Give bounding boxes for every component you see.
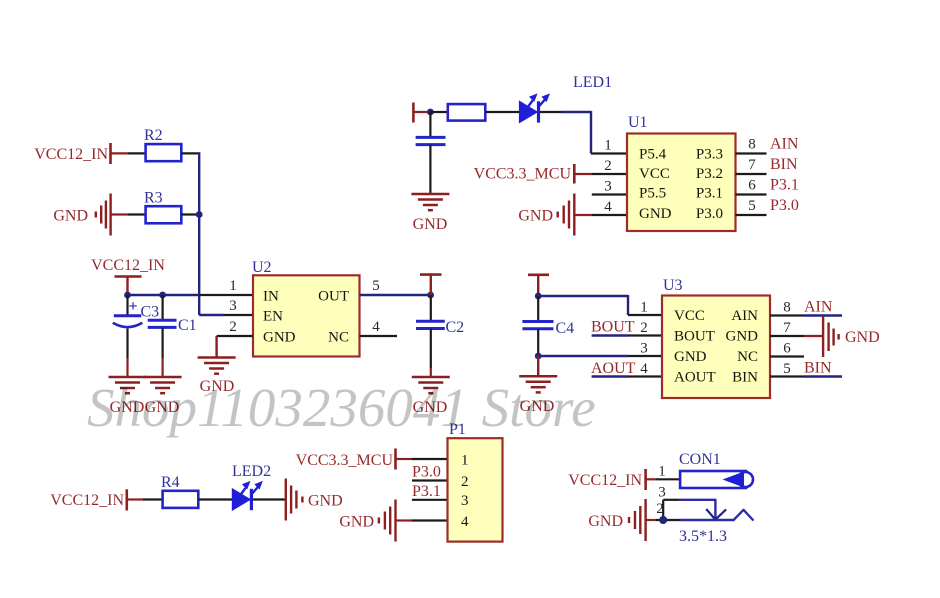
chip U2 (252, 259, 360, 357)
junction C3 top (124, 292, 131, 299)
wire C4 bottom to U3 pin3 (538, 355, 662, 357)
svg-text:P3.3: P3.3 (696, 147, 723, 163)
wire port to junction (414, 111, 430, 113)
capacitor C3 (113, 295, 159, 376)
svg-text:1: 1 (640, 300, 648, 316)
svg-text:VCC12_IN: VCC12_IN (50, 492, 124, 509)
svg-text:8: 8 (748, 137, 756, 153)
U2 pin 2 wire to ground (217, 336, 253, 357)
U2 pin number 1 (229, 278, 237, 294)
svg-text:GND: GND (263, 330, 296, 346)
U3 pin names left (674, 308, 716, 386)
port bar VCC3.3_MCU (P1) (394, 449, 397, 470)
svg-text:C2: C2 (446, 319, 465, 336)
wire AOUT to U3 pin4 (592, 375, 662, 377)
svg-text:VCC: VCC (639, 166, 670, 182)
U3 pin 5 wire BIN (770, 375, 842, 377)
net label GND (U2 pin2) (200, 378, 235, 395)
CON1 pin number 1 (658, 464, 666, 480)
svg-text:VCC12_IN: VCC12_IN (34, 146, 108, 163)
svg-text:GND: GND (726, 329, 759, 345)
resistor R2 (144, 127, 181, 161)
wire EN horizontal (199, 314, 253, 316)
junction C2 top (427, 292, 434, 299)
net label GND (U1 pin4) (518, 208, 553, 225)
svg-text:P5.5: P5.5 (639, 186, 666, 202)
ground sideways (R3) (96, 194, 111, 236)
svg-text:BOUT: BOUT (591, 319, 635, 336)
svg-text:5: 5 (783, 361, 791, 377)
U2 pin name IN (263, 289, 279, 305)
wire ground to P1 pin4 (396, 519, 448, 521)
power T-bar above C2 (420, 275, 442, 295)
U2 pin name NC (328, 330, 349, 346)
svg-text:3: 3 (229, 298, 237, 314)
svg-text:3: 3 (640, 341, 648, 357)
svg-text:P3.1: P3.1 (412, 483, 441, 500)
wire ground to R3 (111, 213, 146, 215)
wire VCC12 to U2 IN (128, 294, 254, 296)
svg-text:VCC: VCC (674, 308, 705, 324)
svg-text:4: 4 (640, 361, 648, 377)
svg-text:R2: R2 (144, 127, 163, 144)
svg-text:LED2: LED2 (232, 463, 271, 480)
svg-text:BIN: BIN (732, 370, 758, 386)
junction C1 top (159, 292, 166, 299)
U1 pin numbers left (604, 138, 612, 216)
capacitor C1 (148, 295, 197, 376)
svg-text:NC: NC (328, 330, 349, 346)
ground below LED1 cap (411, 194, 449, 210)
CON1 pin number 3 (658, 485, 666, 501)
U2 pin number 4 (372, 319, 380, 335)
net label AIN (U3) (804, 299, 833, 316)
net label BOUT (591, 319, 635, 336)
LED LED1 (519, 74, 612, 123)
ground below C1 (144, 377, 182, 393)
LED LED2 (232, 463, 271, 510)
resistor R3 (144, 190, 181, 224)
svg-text:1: 1 (604, 138, 612, 154)
svg-text:C4: C4 (556, 320, 575, 337)
wire BOUT to U3 pin2 (592, 334, 662, 336)
ground sideways (U3 pin7) (823, 316, 839, 357)
svg-text:NC: NC (737, 349, 758, 365)
connector CON1 barrel (679, 451, 753, 488)
svg-text:4: 4 (604, 199, 612, 215)
U2 pin number 2 (229, 319, 237, 335)
net label GND below C3 (110, 399, 145, 416)
port bar VCC12_IN (CON1) (644, 469, 647, 490)
U1 pin 6 stub (736, 193, 767, 195)
svg-text:8: 8 (783, 300, 791, 316)
svg-text:3: 3 (461, 493, 469, 509)
net label VCC12_IN (R2 input) (34, 146, 108, 163)
svg-text:AIN: AIN (804, 299, 833, 316)
svg-text:P3.0: P3.0 (770, 197, 799, 214)
svg-text:6: 6 (748, 178, 756, 194)
svg-text:IN: IN (263, 289, 279, 305)
CON1 pin number 2 (656, 501, 664, 517)
net label GND (LED1 cap) (413, 216, 448, 233)
chip U1 (627, 114, 736, 231)
ground below C3 (109, 377, 147, 393)
net label GND below C1 (145, 399, 180, 416)
wire R2 right (181, 152, 200, 154)
net label GND (LED2) (308, 493, 343, 510)
svg-text:3: 3 (604, 179, 612, 195)
CON1 pin 3 switch wire (663, 499, 715, 519)
resistor (LED1 series) (448, 104, 486, 121)
svg-text:7: 7 (748, 157, 756, 173)
net label P3.0 (U1) (770, 197, 799, 214)
U1 pin 5 stub (736, 214, 767, 216)
wire ground to U1 pin4 (575, 214, 627, 216)
svg-text:GND: GND (845, 329, 880, 346)
wire C4 top to U3 pin1 (538, 295, 662, 315)
ground sideways (U1 pin4) (558, 194, 575, 236)
net label BIN (U1) (770, 156, 798, 173)
svg-text:GND: GND (339, 514, 374, 531)
net label GND (CON1) (588, 513, 623, 530)
svg-text:EN: EN (263, 309, 283, 325)
svg-text:6: 6 (783, 341, 791, 357)
CON1 switch arrowhead (706, 509, 726, 520)
capacitor C4 (522, 296, 574, 356)
svg-text:2: 2 (640, 320, 648, 336)
svg-text:GND: GND (413, 216, 448, 233)
wire LED2 to ground (253, 498, 286, 500)
chip U3 (662, 277, 770, 398)
net label P3.1 (U1) (770, 177, 799, 194)
ground below C2 (412, 377, 450, 393)
wire P3.1 to P1 pin3 (412, 499, 448, 501)
svg-text:7: 7 (783, 320, 791, 336)
U1 pin 8 stub (736, 152, 767, 154)
net label AOUT (591, 360, 636, 377)
svg-text:OUT: OUT (318, 289, 349, 305)
svg-text:2: 2 (461, 474, 469, 490)
U1 pin names right (696, 147, 723, 223)
svg-text:GND: GND (518, 208, 553, 225)
svg-text:AIN: AIN (770, 136, 799, 153)
svg-text:P3.0: P3.0 (696, 206, 723, 222)
svg-text:U2: U2 (252, 259, 272, 276)
svg-text:U1: U1 (628, 114, 648, 131)
svg-text:GND: GND (308, 493, 343, 510)
svg-text:P3.1: P3.1 (696, 186, 723, 202)
svg-text:P3.0: P3.0 (412, 464, 441, 481)
svg-text:5: 5 (372, 278, 380, 294)
net label GND (U3 pin7) (845, 329, 880, 346)
svg-text:VCC12_IN: VCC12_IN (91, 257, 165, 274)
svg-text:2: 2 (229, 319, 237, 335)
svg-text:GND: GND (674, 349, 707, 365)
net label BIN (U3) (804, 360, 832, 377)
U3 pin 8 wire AIN (770, 314, 842, 316)
svg-text:1: 1 (658, 464, 666, 480)
net label GND below C2 (413, 399, 448, 416)
ground sideways (CON1) (629, 499, 646, 541)
U3 pin numbers right (783, 300, 791, 378)
net label GND (R3) (53, 208, 88, 225)
U3 pin 7 wire to ground (770, 335, 823, 337)
U2 pin 4 NC stub (360, 335, 398, 337)
port bar VCC3.3_MCU (U1) (573, 164, 576, 184)
U1 pin 3 stub (592, 193, 627, 195)
CON1 pin 2 vertical wire (662, 500, 664, 520)
net label VCC12_IN (CON1) (568, 472, 642, 489)
U1 pin names left (639, 147, 672, 223)
U2 pin name EN (263, 309, 283, 325)
port bar VCC12_IN (LED2) (126, 489, 129, 510)
svg-text:VCC3.3_MCU: VCC3.3_MCU (296, 452, 394, 469)
net label VCC3.3_MCU (P1) (296, 452, 394, 469)
net label GND (P1 pin4) (339, 514, 374, 531)
svg-text:4: 4 (372, 319, 380, 335)
wire port to R2 (111, 152, 146, 154)
wire VCC3.3_MCU to P1 pin1 (396, 458, 448, 460)
wire OUT to C2 (360, 294, 431, 296)
svg-text:LED1: LED1 (573, 74, 612, 91)
net label AIN (U1) (770, 136, 799, 153)
junction R3-R2 (196, 211, 203, 218)
svg-text:AIN: AIN (731, 308, 758, 324)
svg-text:Shop1103236041 Store: Shop1103236041 Store (87, 377, 596, 438)
U1 pin numbers right (748, 137, 756, 215)
svg-text:AOUT: AOUT (674, 370, 716, 386)
U3 pin names right (726, 308, 759, 386)
svg-text:R3: R3 (144, 190, 163, 207)
power T-bar above C4 (528, 275, 549, 296)
junction LED1 cap (427, 109, 434, 116)
wire R4 to LED2 (198, 498, 232, 500)
svg-text:BIN: BIN (770, 156, 798, 173)
net label GND below C4 (520, 398, 555, 415)
svg-text:P3.2: P3.2 (696, 166, 723, 182)
svg-text:5: 5 (748, 198, 756, 214)
wire junction to resistor (430, 111, 448, 113)
svg-text:4: 4 (461, 514, 469, 530)
svg-text:AOUT: AOUT (591, 360, 636, 377)
wire P3.0 to P1 pin2 (412, 479, 448, 481)
svg-text:CON1: CON1 (679, 451, 721, 468)
wire ground along CON1 bottom (646, 519, 735, 521)
U1 pin 7 stub (736, 173, 767, 175)
wire R3 right (181, 213, 199, 215)
net label VCC3.3_MCU (U1) (474, 166, 572, 183)
svg-text:BIN: BIN (804, 360, 832, 377)
net label VCC12_IN (LED2) (50, 492, 124, 509)
resistor R4 (161, 474, 198, 508)
svg-text:P5.4: P5.4 (639, 147, 667, 163)
CON1 sleeve spring (734, 510, 753, 520)
svg-text:1: 1 (461, 453, 469, 469)
U2 pin name OUT (318, 289, 349, 305)
wire port to CON1 pin1 (646, 478, 680, 480)
junction C4 bottom (535, 353, 542, 360)
svg-text:VCC12_IN: VCC12_IN (568, 472, 642, 489)
ground U2 pin 2 (198, 358, 236, 374)
U3 pin 6 stub (770, 355, 804, 357)
svg-text:GND: GND (588, 513, 623, 530)
watermark (87, 377, 596, 438)
svg-text:P3.1: P3.1 (770, 177, 799, 194)
power port VCC12_IN (T-bar) (91, 257, 165, 295)
power port bar (LED1 supply) (412, 103, 415, 123)
U3 pin numbers left (640, 300, 648, 378)
svg-text:1: 1 (229, 278, 237, 294)
junction C4 top (535, 293, 542, 300)
U2 pin number 5 (372, 278, 380, 294)
P1 pin numbers (461, 453, 469, 531)
ground below C4 (537, 356, 539, 376)
U2 pin number 3 (229, 298, 237, 314)
wire vertical R2 to EN (198, 152, 200, 315)
net label P3.0 (P1) (412, 464, 441, 481)
ground sideways (P1 pin4) (379, 500, 396, 542)
svg-text:3: 3 (658, 485, 666, 501)
junction CON1 pin2 (659, 516, 667, 524)
svg-text:U3: U3 (663, 277, 683, 294)
capacitor (LED1 filter) (416, 112, 446, 193)
wire resistor to LED1 (485, 111, 519, 113)
svg-text:+: + (129, 298, 138, 315)
wire LED1 to U1 pin1 (540, 111, 627, 154)
wire port to R4 (127, 498, 163, 500)
svg-text:GND: GND (53, 208, 88, 225)
port bar VCC12_IN (109, 143, 112, 164)
capacitor C2 (416, 295, 464, 376)
svg-text:VCC3.3_MCU: VCC3.3_MCU (474, 166, 572, 183)
ground sideways (LED2) (286, 479, 303, 521)
U2 pin name GND (263, 330, 296, 346)
svg-text:C1: C1 (178, 317, 197, 334)
wire VCC3.3_MCU to U1 pin2 (575, 173, 627, 175)
net label P3.1 (P1) (412, 483, 441, 500)
svg-text:3.5*1.3: 3.5*1.3 (679, 528, 727, 545)
CON1 size label 3.5*1.3 (679, 528, 727, 545)
svg-text:R4: R4 (161, 474, 180, 491)
svg-text:2: 2 (604, 158, 612, 174)
connector P1 (448, 421, 503, 542)
svg-text:BOUT: BOUT (674, 329, 715, 345)
svg-text:C3: C3 (141, 304, 160, 321)
svg-text:GND: GND (639, 206, 672, 222)
